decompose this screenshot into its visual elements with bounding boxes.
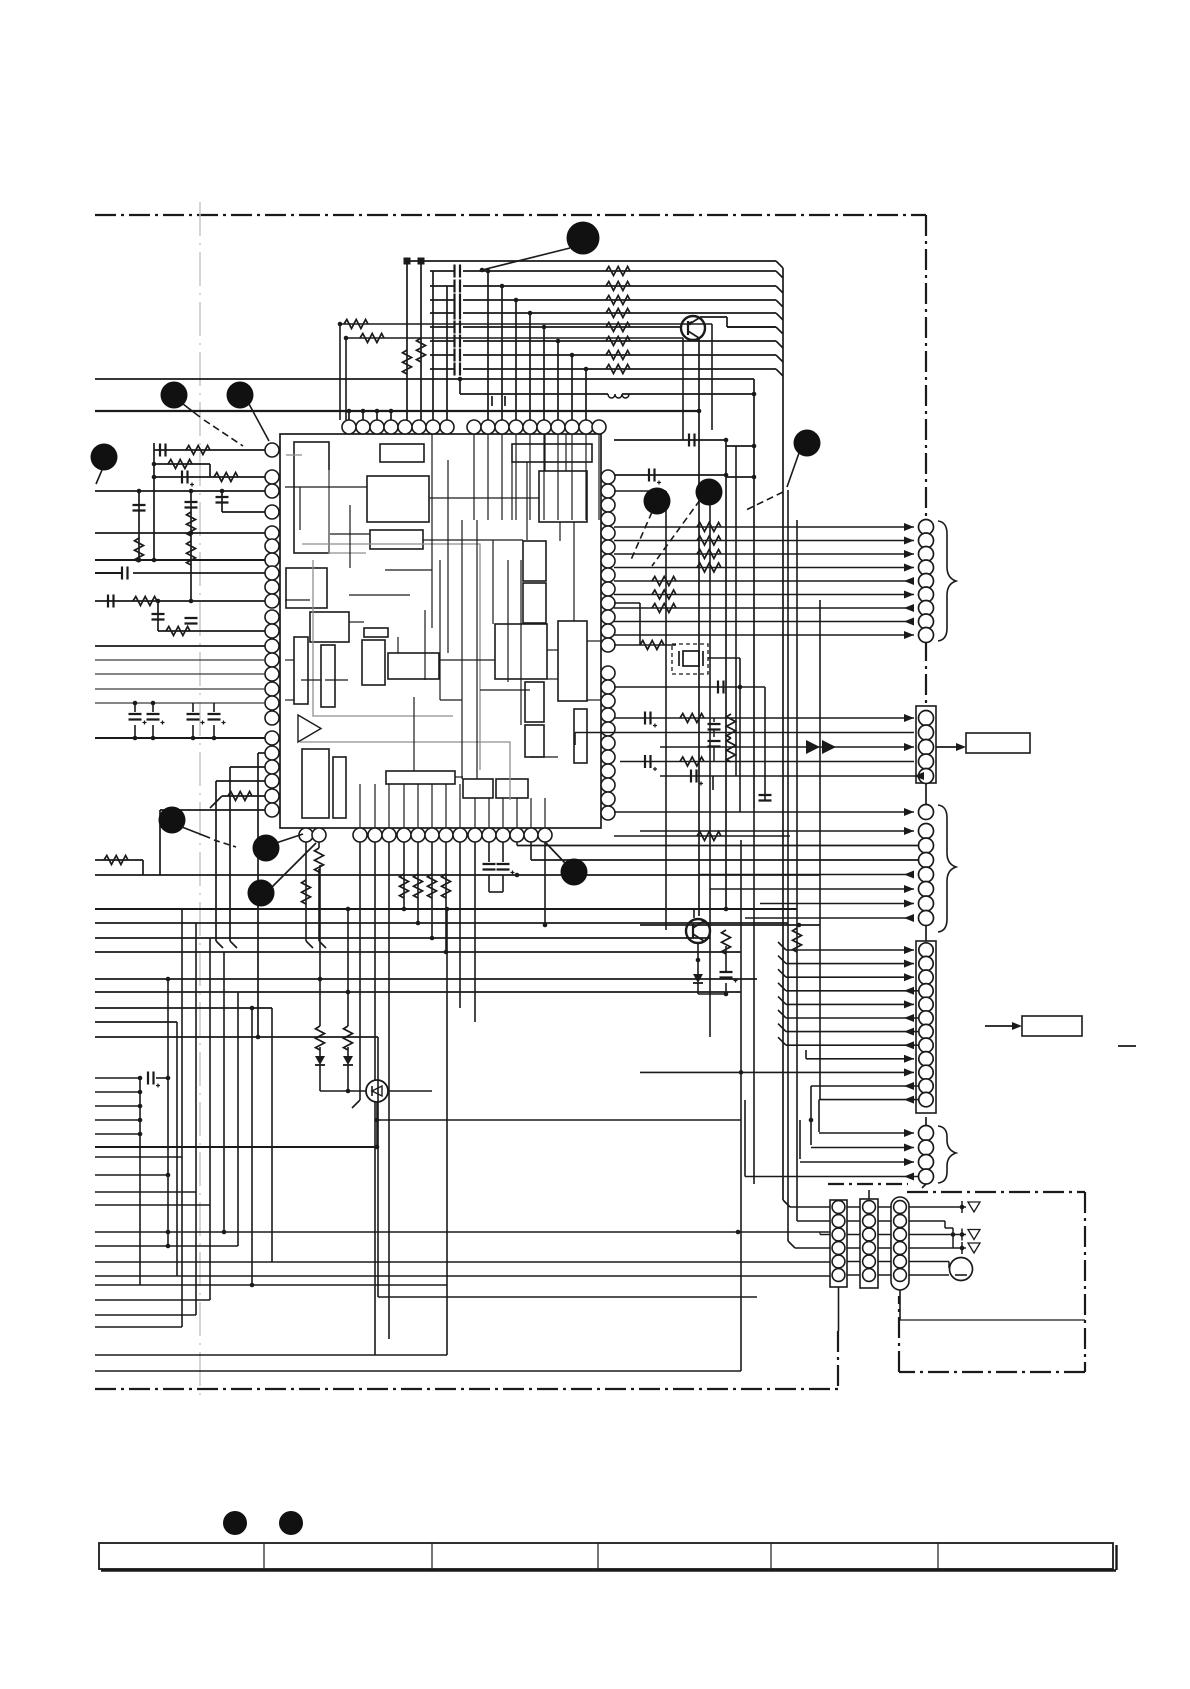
resistor R48 [228,792,252,801]
capacitor C70 polarized [148,1072,160,1088]
wire to CN4 pin 8 [786,1044,918,1046]
wire to CN1 pin 9 [614,634,914,636]
wire [640,924,820,926]
brace CN5 [938,1126,956,1183]
wire [797,1220,830,1222]
wire row pin16 [95,737,265,739]
wire riser [251,1008,253,1285]
wire [159,810,161,875]
connector CN2 housing [916,706,936,783]
callout 6 [696,479,723,506]
wire [795,1247,830,1249]
ferrite bead F1 [404,258,411,265]
IC U1 internal block 8 [310,612,349,642]
wire to CN5 pin 1 [819,1132,914,1134]
IC U1 internal block 17 [463,779,493,798]
wire riser [271,1008,273,1262]
IC U1 internal block 23 [525,725,544,757]
IC U1 internal block 25 [574,709,587,763]
wire inside dash-dot box [899,1319,1085,1321]
wire [445,842,447,952]
wire [909,1261,949,1263]
diode D2 [347,1047,349,1056]
wire CN4 output [985,1025,1014,1027]
capacitor C15 [455,335,461,348]
wire leader [271,843,316,888]
wire to CN4 pin 5 [786,1003,914,1005]
wire [345,338,347,420]
IC U1 internal block 18 [496,779,528,798]
capacitor C16 [455,349,461,362]
wire [339,324,341,420]
IC U1 internal block 20 [523,541,546,581]
wire [529,313,531,420]
wire to CN3 pin 1 [614,811,914,813]
wire CN4 to CN5 link [925,1117,927,1126]
wire riser [176,1022,178,1276]
callout 7 leader [787,453,799,487]
wire row [95,1191,196,1193]
wire [838,1287,840,1331]
capacitor C41 polarized [152,703,154,712]
wire row B [460,393,608,395]
wire row [95,1007,272,1009]
wire bus line 5 [430,326,454,328]
capacitor C50 [689,434,695,447]
wire [388,1090,432,1092]
wire [459,379,461,394]
resistor R46 [133,597,157,606]
resistor R75 [302,880,311,904]
IC U1 internal block 19 [495,624,547,679]
wire [318,842,320,848]
wire [614,835,790,837]
wire [190,491,192,601]
brace CN1 [938,521,956,641]
wire [909,1274,949,1276]
wire to CN4 pin 3 [786,976,914,978]
wire [851,1274,853,1276]
capacitor C56 [708,741,721,747]
wire [221,491,223,512]
wire riser [209,938,211,1205]
revision table [99,1543,1113,1569]
resistor R20 [606,267,630,276]
wire [790,1206,830,1208]
callout 5 leader [630,512,652,562]
wire to CN4 pin 1 [786,949,914,951]
wire leader [276,834,303,843]
resistor R10 [403,350,412,374]
wire row [95,1204,210,1206]
wire right pin row [614,439,726,441]
wire row pin19 [216,780,265,782]
wire [585,369,587,420]
wire riser [446,909,448,1355]
wire bus line 6 [430,340,454,342]
wire [909,1220,945,1222]
resistor R26 [606,351,630,360]
capacitor C61 polarized [502,842,504,862]
wire [847,1247,860,1249]
wire row [95,1245,238,1247]
wire row C thick [95,410,699,412]
wire [215,781,217,941]
wire riser [237,992,239,1246]
callout 2 [161,382,188,409]
wire [614,686,765,688]
wire row [95,991,741,993]
wire [167,1175,169,1246]
wire row pin9 [158,630,265,632]
wire row [95,1326,182,1328]
IC U1 internal block 16 [386,771,455,784]
resistor R64 [793,928,802,952]
capacitor C34 [216,497,229,503]
wire [909,1206,966,1208]
wire short row [95,1119,140,1121]
resistor R22 [606,296,630,305]
transistor Q2 [686,919,710,943]
wire to CN2 pin5 [660,775,924,777]
wire bus line 2 [430,285,454,287]
wire row [95,1174,168,1176]
dash-dot box bottom [899,1371,1085,1373]
connector CN2 pins [919,711,934,726]
wire [257,753,259,1037]
capacitor C60 [488,842,490,862]
callout 4 leader [96,470,102,484]
wire [377,1119,741,1121]
connector CN3 pins [919,805,934,820]
wire [229,767,231,941]
wire [154,449,265,451]
wire row [95,1261,830,1263]
wire [156,1077,168,1079]
wire riser x710 [709,500,711,1037]
wire to CN2 pin4 [620,761,914,763]
wire [347,909,349,1026]
wire row [95,1021,177,1023]
IC U1 internal block 12 [362,640,385,685]
wire row [378,1296,757,1298]
wire row pin14 [95,702,265,704]
wire [320,1090,366,1092]
wire [139,1078,141,1285]
wire row [95,951,741,953]
wire [154,463,210,465]
wire row [95,1314,196,1316]
connector CN6 housing [830,1200,847,1287]
wire row pin20 [222,795,265,797]
wire [698,993,726,995]
resistor R21 [606,282,630,291]
callout 10 [248,880,275,907]
IC U1 left pins [265,443,279,457]
IC U1 top pins [342,420,356,434]
label dash [1118,1045,1136,1047]
wire row pin4 [222,511,265,513]
wire to CN3 pin 6 [710,888,914,890]
wire row pin6 [95,559,265,561]
table divider 1 [263,1543,265,1569]
callout 6 leader [652,500,700,566]
wire short row [95,1091,140,1093]
capacitor C36 [108,595,114,608]
wire [948,1262,950,1269]
fold marker line [199,202,201,1402]
wire to CN3 pin 5 [700,874,914,876]
wire [374,842,376,1355]
resistor R40 [186,446,210,455]
IC U1 internal block 13 [388,653,439,679]
wire [153,443,155,560]
wire row A [95,378,754,380]
IC U1 internal block 7 [286,568,327,608]
wire to CN3 pin 2 [640,830,914,832]
diode D1 [319,1047,321,1056]
resistor R80 [316,1026,325,1050]
wire [376,411,378,420]
resistor R11 [417,338,426,362]
resistor R82 [104,856,128,865]
wire [501,286,503,420]
wire row [95,1354,447,1356]
wire Q1 collector [700,316,727,318]
wire [899,1290,901,1320]
wire bus line 7 [430,354,454,356]
wire [487,271,489,420]
wire riser [181,910,183,1158]
wire riser x754 low [753,808,755,1184]
wire [543,327,545,420]
wire [819,1232,821,1235]
wire [614,644,676,646]
callout 8 leader [182,827,210,838]
table divider 2 [431,1543,433,1569]
capacitor C33 [185,502,198,508]
border dash-dot bottom [95,1388,838,1390]
wire to CN3 pin 8 [745,917,914,919]
wire [432,271,434,420]
wire to CN1 pin 8 [614,621,914,623]
IC U1 right pins [601,470,615,484]
callout 1 [567,222,600,255]
wire row [95,978,757,980]
wire short row [95,1133,140,1135]
IC U1 internal block 24 [558,621,587,701]
wire riser [665,491,667,930]
wire row thick [95,908,797,910]
wire to CN1 pin 5 [614,580,914,582]
wire bus line 3 [430,299,454,301]
table divider 3 [597,1543,599,1569]
wire [403,842,405,909]
wire [431,842,433,938]
wire [764,687,766,800]
resistor R73 [442,874,451,898]
capacitor C38 [185,618,198,624]
wire row pin21 [160,809,265,811]
resistor R45 [187,541,196,565]
wire riser [377,1037,379,1297]
wire [446,286,448,420]
wire [138,491,140,560]
wire riser x741 [740,840,742,1371]
wire row [95,1275,830,1277]
border dash-dot top [95,214,926,216]
motor M1 [950,1258,973,1281]
dash-dot segment right column mid [925,640,927,708]
table shadow [101,1569,1116,1571]
wire row [95,922,788,924]
resistor R25 [606,337,630,346]
wire row [95,937,710,939]
resistor R24 [606,323,630,332]
capacitor C31 polarized [182,471,194,487]
wire riser x797 [796,520,798,1221]
wire row [531,859,918,861]
resistor R31 [360,334,384,343]
wire row pin5 [95,532,265,534]
wire [711,324,713,430]
dash-dot segment above connector strips [828,1183,908,1185]
wire [708,657,740,659]
wire [420,264,422,420]
IC U1 internal block 3 [367,476,429,522]
capacitor C42 polarized [192,703,194,712]
connector CN1 pins [919,520,934,535]
wire [474,842,476,1022]
wire [406,264,408,420]
connector CN6 pins [832,1201,845,1214]
capacitor C52 [718,681,724,694]
callout 3 [227,382,254,409]
wire to CN1 pin 1 [614,526,914,528]
IC U1 internal block 9 [294,637,308,704]
IC U1 internal block 14 [302,749,329,818]
IC U1 internal op-amp [298,715,321,742]
resistor R41 [168,460,192,469]
capacitor C10 [455,265,461,278]
wire riser x736 [735,446,737,776]
wire CN2 output [936,746,958,748]
callout 5 [644,488,671,515]
IC U1 internal block 21 [523,583,546,623]
wire [726,445,754,447]
wire to CN3 pin 4 [531,859,918,861]
wire to CN4 pin 6 [786,1017,918,1019]
wire [346,337,683,339]
dash-dot box top [907,1191,1085,1193]
wire to CN4 pin 7 [786,1031,918,1033]
wire [348,411,350,420]
resistor R66 [727,738,736,762]
label box K1 [966,733,1030,753]
capacitor C12 [455,294,461,307]
wire CN2 to CN3 link [925,783,927,812]
IC U1 bottom pins [299,828,313,842]
wire [530,842,532,860]
wire to CN5 pin 2 [811,1147,914,1149]
callout 2 leader [183,404,200,417]
wire riser x820 [819,600,821,1100]
wire [388,842,390,1339]
callout 3 leader [249,404,269,441]
wire short row [95,1077,140,1079]
callout 11 [561,859,588,886]
wire to CN3 pin 3 [517,845,918,847]
wire row [95,1231,830,1233]
label box K2 [1022,1016,1082,1036]
wire to CN5 pin 3 [800,1161,914,1163]
wire to CN2 pin2 [575,732,914,734]
wire row pin10 [95,645,265,647]
resistor R71 [414,874,423,898]
wire to CN1 pin 6 [614,594,914,596]
wire row pin11 [95,659,265,661]
wire leader [546,843,566,864]
wire row long [95,1370,741,1372]
connector CN8 pins [894,1201,907,1214]
wire [909,1247,966,1249]
capacitor C14 [455,321,461,334]
connector CN5 pins [919,1126,934,1141]
wire right pin row [614,490,666,492]
wire row pin7 [95,572,122,574]
wire to CN4 pin 2 [786,963,914,965]
wire [847,1206,860,1208]
resistor R42 [214,473,238,482]
wire [489,891,503,893]
IC U1 outline [280,434,601,828]
resistor R61 [640,641,664,650]
IC U1 internal block 1 [294,442,329,553]
wire [697,943,699,974]
wire [909,1234,966,1236]
IC U1 internal block 15 [333,757,346,818]
LED D4 [366,1080,388,1102]
wire [515,300,517,420]
crystal X1 [683,651,699,666]
resistor R44 [187,512,196,536]
resistor R63 [722,930,731,954]
wire row pin18 [230,766,265,768]
resistor R43 [135,538,144,562]
bus top rail [405,260,776,262]
wire [417,842,419,923]
wire [376,1102,378,1147]
wire [847,1261,860,1263]
wire [359,842,361,1100]
wire [847,1234,860,1236]
resistor R30 [344,320,368,329]
wire [95,1146,377,1148]
wire [614,602,640,604]
wire [571,355,573,420]
crystal X1 dashed box [672,644,708,674]
wire to CN1 pin 2 [614,540,914,542]
connector CN7 pins [863,1201,876,1214]
border dash-dot right [925,215,927,524]
border dash-dot stub right-bottom [837,1331,839,1389]
diode D3 [693,974,703,983]
callout 12 [223,1511,247,1535]
IC U1 internal block 2 [380,444,424,462]
wire [362,411,364,420]
capacitor C43 polarized [213,703,215,712]
wire row pin13 [95,688,265,690]
